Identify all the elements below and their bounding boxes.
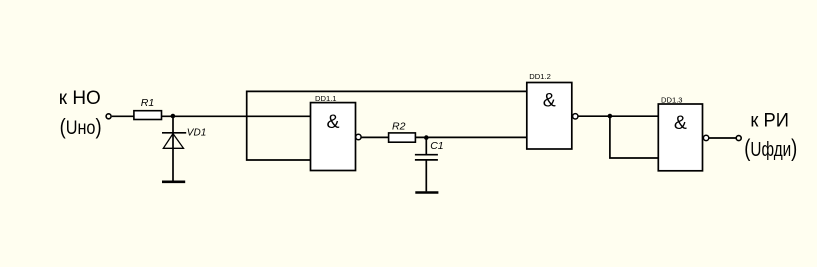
ground (VD1) <box>162 181 185 184</box>
svg-text:к НО: к НО <box>59 87 101 109</box>
node input terminal (к НО) <box>59 87 111 139</box>
svg-text:(Uфди): (Uфди) <box>744 135 797 162</box>
resistor R2 <box>389 120 416 142</box>
wire junction down through diode to ground <box>172 116 174 181</box>
wire junction down to C1 <box>425 137 427 154</box>
op-amp U1: NAND gate DD1.1 <box>311 94 362 171</box>
svg-text:VD1: VD1 <box>187 127 206 138</box>
svg-text:(Uно): (Uно) <box>60 114 102 139</box>
svg-text:&: & <box>674 112 687 134</box>
node junction R1/VD1 <box>171 114 176 119</box>
node junction DD1.2 output split <box>608 114 613 119</box>
ground (C1) <box>415 191 438 194</box>
wire DD1.2 output to DD1.3 upper input <box>578 115 658 117</box>
svg-text:&: & <box>543 89 556 111</box>
wire C1 to ground <box>425 160 427 192</box>
wire R2 to DD1.2 lower input <box>415 136 527 138</box>
svg-text:R1: R1 <box>141 97 154 109</box>
wire junction down to DD1.3 lower input <box>610 116 658 158</box>
wire DD1.1 output to R2 <box>361 136 388 138</box>
diode VD1 <box>162 127 206 148</box>
op-amp U3: NAND gate DD1.3 <box>658 95 709 170</box>
wire DD1.3 output to terminal <box>709 137 736 139</box>
wire terminal to R1 <box>112 115 134 117</box>
svg-text:DD1.1: DD1.1 <box>315 94 337 103</box>
wire feedback DD1.1 lower input to DD1.2 upper input <box>247 91 527 160</box>
capacitor C1 <box>415 140 444 160</box>
node output terminal (к РИ) <box>736 110 797 163</box>
node junction R2/C1 <box>424 135 429 140</box>
svg-text:к РИ: к РИ <box>750 110 789 132</box>
svg-text:DD1.2: DD1.2 <box>529 72 551 81</box>
op-amp U2: NAND gate DD1.2 <box>527 72 578 149</box>
svg-text:C1: C1 <box>430 140 443 152</box>
svg-text:&: & <box>326 111 339 133</box>
svg-text:DD1.3: DD1.3 <box>661 95 683 104</box>
wire R1 to DD1.1 input <box>162 115 311 117</box>
resistor R1 <box>134 97 162 120</box>
svg-text:R2: R2 <box>392 120 406 132</box>
